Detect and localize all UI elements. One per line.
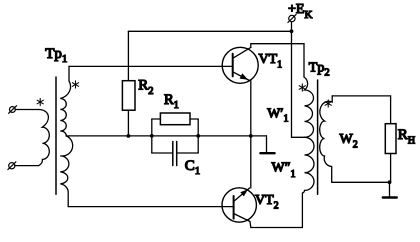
+EK terminal xyxy=(288,14,296,22)
svg-text:Tp2: Tp2 xyxy=(309,60,330,78)
svg-text:W2: W2 xyxy=(340,132,358,151)
wire: W2 bottom to RH bottom xyxy=(332,181,391,183)
transformer Tp2 primary W'1 xyxy=(304,77,314,137)
capacitor C1 xyxy=(152,142,198,166)
node: emitter rail junction xyxy=(249,134,253,138)
wire: VT2 collector to W"1 bottom xyxy=(250,222,302,228)
svg-text:C1: C1 xyxy=(185,158,200,177)
wire: W2 top to RH xyxy=(332,96,390,124)
node: left R1C1 junction xyxy=(150,134,154,138)
svg-text:RH: RH xyxy=(398,127,415,146)
node: +EK top rail junction xyxy=(290,29,294,33)
transistor VT2 xyxy=(222,188,256,222)
R1C1 left stub xyxy=(151,119,153,153)
node: R2 bottom junction xyxy=(126,134,130,138)
ground (emitters) xyxy=(266,136,268,153)
svg-text:R1: R1 xyxy=(164,92,179,111)
transistor VT1 xyxy=(222,47,258,83)
svg-text:VT1: VT1 xyxy=(259,52,283,70)
wire: Tp1 secondary top to VT1 base xyxy=(69,65,233,67)
input terminal bottom xyxy=(8,162,16,170)
wire: center tap to R1C1 to emitters xyxy=(66,135,267,137)
node: right R1C1 junction xyxy=(196,134,200,138)
resistor RH xyxy=(385,124,396,183)
Tp1 primary dot mark * xyxy=(37,98,43,105)
R1C1 right stub xyxy=(197,119,199,153)
wire: Tp1 secondary bottom to VT2 base xyxy=(68,206,233,208)
transformer Tp1 secondary winding xyxy=(60,66,72,206)
emitter rail VT1-VT2 xyxy=(250,81,252,189)
ground (load) xyxy=(389,182,391,197)
W'1 dot mark * xyxy=(299,84,305,91)
svg-text:VT2: VT2 xyxy=(255,193,279,211)
resistor R1 xyxy=(152,113,198,125)
wire: top rail from R2 to +EK line xyxy=(128,30,291,32)
wire input bottom xyxy=(15,165,39,167)
transformer Tp1 core xyxy=(55,77,57,194)
transformer Tp1 primary winding xyxy=(39,110,50,166)
wire: VT1 collector up and over to W'1 top xyxy=(251,44,304,77)
wire: +EK feed down to Tp2 center tap xyxy=(292,22,305,138)
transformer Tp2 secondary W2 xyxy=(320,96,333,182)
svg-text:R2: R2 xyxy=(138,77,153,96)
Tp1 secondary dot mark * xyxy=(72,81,78,88)
node: ground junction xyxy=(388,180,392,184)
svg-text:W′1: W′1 xyxy=(267,107,288,125)
W2 dot mark * xyxy=(325,100,331,107)
wire input top xyxy=(15,109,38,111)
transformer Tp2 primary W"1 xyxy=(302,137,314,227)
svg-text:Tp1: Tp1 xyxy=(45,46,67,65)
svg-text:W″1: W″1 xyxy=(272,161,296,181)
resistor R2 xyxy=(122,31,135,136)
input terminal top xyxy=(9,106,17,114)
transformer Tp2 core xyxy=(317,80,319,194)
